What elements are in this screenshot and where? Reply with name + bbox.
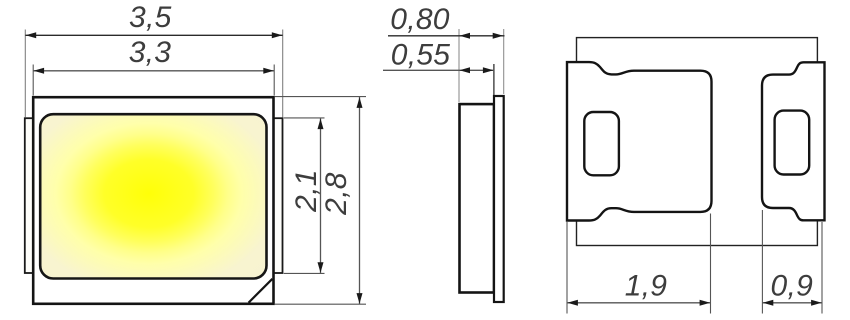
svg-text:3,3: 3,3 <box>129 36 172 69</box>
svg-text:2,8: 2,8 <box>320 172 353 216</box>
dimension 2,8 <box>359 97 361 304</box>
dimension 1,9 <box>567 302 711 304</box>
extension lines for 1,9 <box>566 222 568 314</box>
side view: lens strip <box>494 96 504 302</box>
bottom view: cathode pad (right, small) <box>762 62 825 220</box>
top view: phosphor cavity with yellow glow <box>40 114 266 278</box>
top view: cathode chamfer mark <box>249 279 273 303</box>
svg-text:0,80: 0,80 <box>390 3 450 36</box>
svg-text:0,55: 0,55 <box>391 38 451 71</box>
svg-text:0,9: 0,9 <box>770 270 813 303</box>
bottom view: anode pad hole <box>584 112 619 175</box>
top view: right electrode tab <box>274 118 283 273</box>
extension lines for 2,1 <box>284 117 325 119</box>
extension lines for 3,3 <box>32 65 34 96</box>
extension lines for 2,8 <box>275 96 367 98</box>
top view: package body <box>33 97 273 304</box>
dimension 2,1 <box>320 118 322 273</box>
extension lines for 0,9 <box>761 210 763 314</box>
dimension 3,5 <box>25 34 282 36</box>
bottom view: ceramic body outline <box>577 38 818 246</box>
svg-text:1,9: 1,9 <box>625 270 668 303</box>
dimension 0,9 <box>762 302 822 304</box>
bottom view: anode pad (left, large) <box>567 62 712 220</box>
extension lines for 0,80 <box>458 29 460 102</box>
dimension 0,55 <box>383 69 494 71</box>
side view: package body <box>460 104 495 292</box>
extension line for 0,55 (strip left edge) <box>493 64 495 95</box>
svg-text:2,1: 2,1 <box>290 169 323 213</box>
top view: left electrode tab <box>25 118 34 273</box>
dimension 3,3 <box>33 70 274 72</box>
svg-text:3,5: 3,5 <box>129 1 172 34</box>
bottom view: cathode pad hole <box>775 111 810 175</box>
dimension 0,80 <box>388 35 505 37</box>
extension lines for 3,5 <box>24 30 26 118</box>
